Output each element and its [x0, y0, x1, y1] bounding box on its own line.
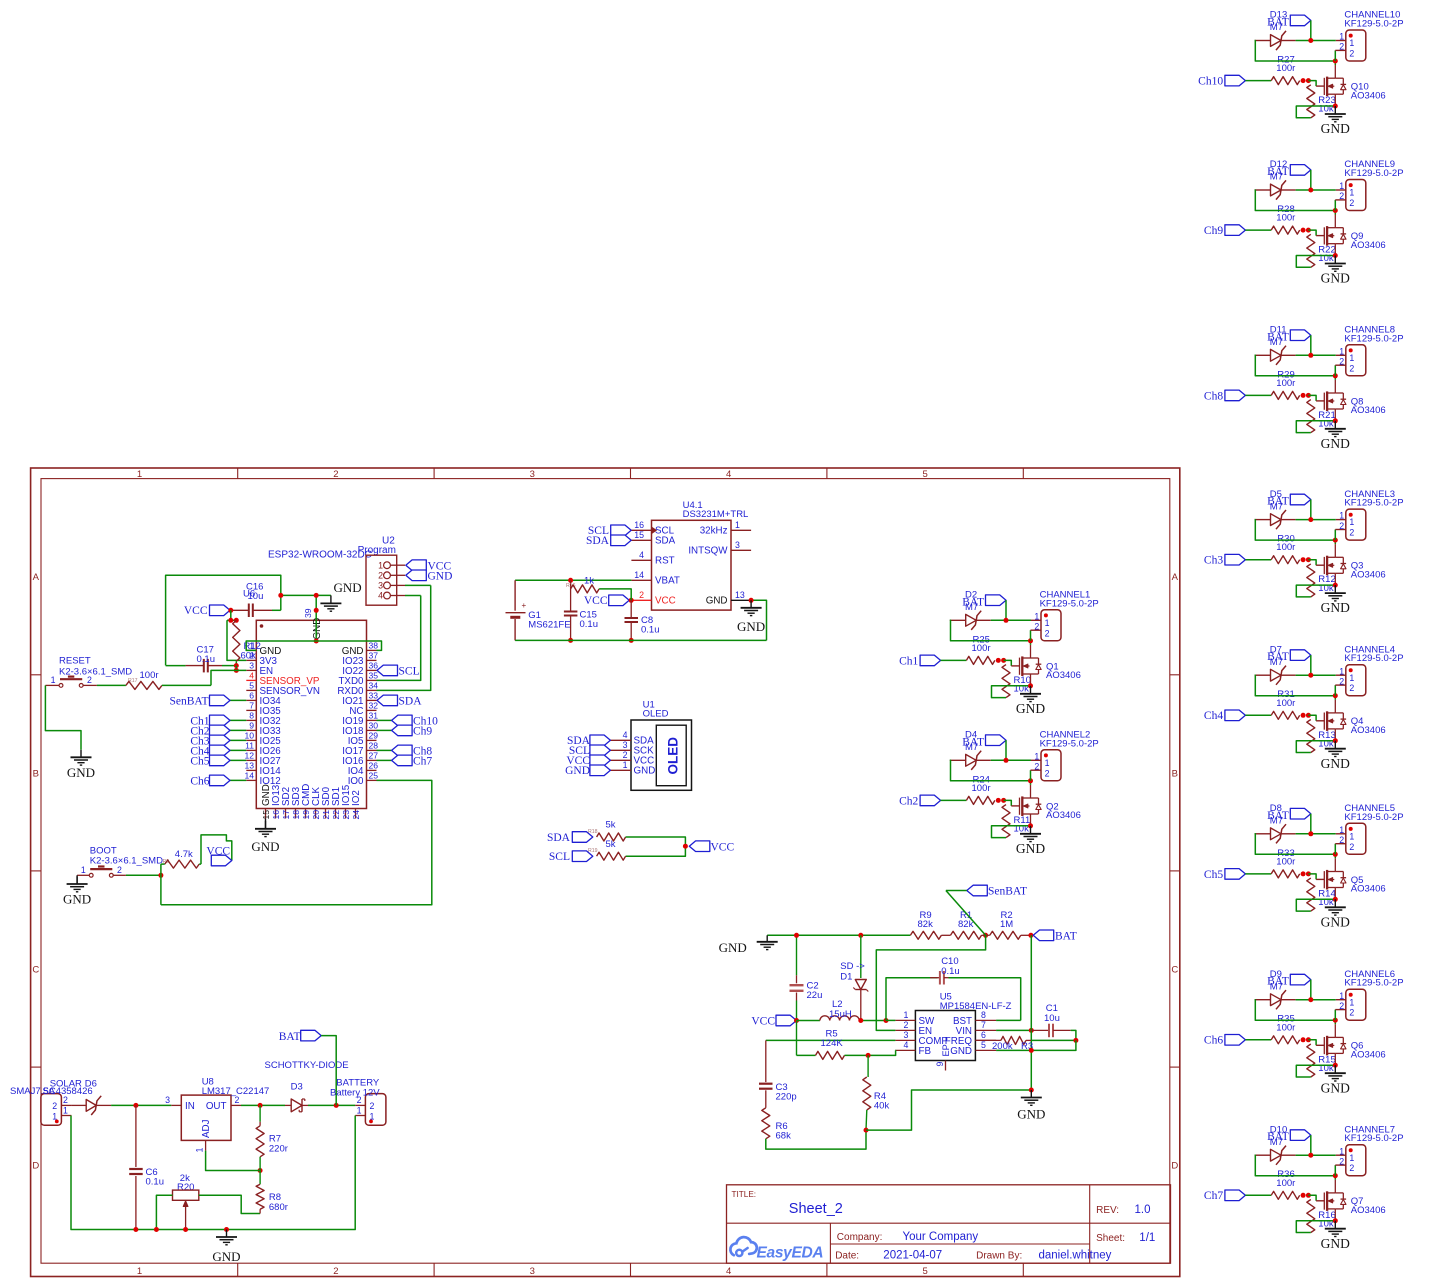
junction — [1308, 38, 1313, 43]
net flag Ch4 — [1225, 710, 1246, 721]
wire — [941, 799, 967, 801]
wire — [1296, 256, 1335, 268]
svg-text:2: 2 — [639, 590, 644, 600]
svg-text:2: 2 — [1339, 357, 1344, 367]
pin 9 IO33 — [246, 729, 256, 731]
svg-text:KF129-5.0-2P: KF129-5.0-2P — [1344, 333, 1403, 344]
wire — [859, 1020, 886, 1022]
pin 16 IO13 — [275, 809, 277, 819]
wire — [1030, 781, 1032, 785]
svg-text:1: 1 — [1349, 831, 1354, 841]
wire — [1245, 714, 1271, 716]
IC U4.1 DS3231M+TRL — [652, 520, 732, 610]
svg-text:Sheet_2: Sheet_2 — [789, 1201, 843, 1217]
svg-text:GND: GND — [212, 1249, 240, 1264]
svg-text:32: 32 — [369, 701, 379, 711]
svg-text:16: 16 — [634, 520, 644, 530]
svg-text:2: 2 — [1349, 49, 1354, 59]
svg-text:2: 2 — [1339, 42, 1344, 52]
svg-text:GND: GND — [1017, 1107, 1045, 1122]
svg-text:5: 5 — [922, 1266, 927, 1277]
junction — [1301, 78, 1306, 83]
junction — [1308, 353, 1313, 358]
wire — [1334, 696, 1336, 700]
svg-text:EasyEDA: EasyEDA — [757, 1245, 824, 1262]
svg-text:2: 2 — [333, 1266, 338, 1277]
junction — [228, 618, 233, 623]
wire — [235, 661, 237, 665]
svg-text:1: 1 — [1349, 353, 1354, 363]
svg-text:2: 2 — [357, 1095, 362, 1105]
wire 3V3 — [227, 620, 246, 660]
pin 17 SD2 — [285, 809, 287, 819]
net flag Ch2 — [920, 795, 941, 806]
resistor R3 200k — [975, 1039, 1001, 1041]
wire — [321, 1036, 336, 1106]
wire — [1255, 190, 1336, 211]
svg-text:1: 1 — [195, 1148, 205, 1153]
svg-text:23: 23 — [341, 810, 351, 820]
svg-text:GND: GND — [565, 765, 590, 777]
svg-text:VBAT: VBAT — [655, 576, 680, 587]
transistor Q10 AO3406 — [1323, 78, 1325, 95]
capacitor C10 0.1u — [886, 978, 938, 1021]
wire — [77, 874, 89, 876]
svg-text:220p: 220p — [776, 1092, 797, 1103]
resistor R15 10k — [1307, 1044, 1315, 1077]
svg-text:Drawn By:: Drawn By: — [976, 1251, 1022, 1262]
svg-text:38: 38 — [369, 641, 379, 651]
svg-text:GND: GND — [950, 1046, 972, 1057]
wire — [1334, 844, 1336, 855]
wire VBAT rail — [515, 579, 631, 581]
pin 3 COMP — [895, 1039, 915, 1041]
junction — [1333, 693, 1338, 698]
junction — [133, 1227, 138, 1232]
svg-text:Company:: Company: — [837, 1232, 883, 1243]
transistor Q5 AO3406 — [1323, 871, 1325, 888]
svg-text:1: 1 — [137, 469, 142, 480]
net flag VCC — [776, 1015, 797, 1026]
ground — [750, 600, 752, 608]
wire — [976, 619, 991, 621]
svg-text:9: 9 — [935, 1062, 945, 1067]
svg-text:2: 2 — [1339, 1001, 1344, 1011]
svg-text:KF129-5.0-2P: KF129-5.0-2P — [1344, 812, 1403, 823]
svg-text:GND: GND — [634, 766, 656, 777]
junction — [1308, 997, 1313, 1002]
svg-text:2: 2 — [378, 571, 383, 581]
svg-text:GND: GND — [1321, 600, 1350, 615]
net flag Ch8 — [1225, 390, 1246, 401]
svg-text:Program: Program — [358, 545, 396, 556]
svg-text:1M: 1M — [1000, 919, 1013, 930]
svg-text:4: 4 — [904, 1040, 909, 1050]
pin 2 3V3 — [246, 659, 256, 661]
svg-text:ESP32-WROOM-32DC: ESP32-WROOM-32DC — [268, 550, 372, 561]
net flag BAT — [301, 1030, 322, 1041]
svg-text:1: 1 — [1339, 825, 1344, 835]
svg-text:GND: GND — [67, 765, 95, 780]
svg-text:14: 14 — [244, 771, 254, 781]
connector CHANNEL4 KF129-5.0-2P — [1346, 665, 1366, 696]
connector CHANNEL6 KF129-5.0-2P — [1346, 989, 1366, 1020]
svg-text:100r: 100r — [1276, 213, 1295, 224]
svg-text:100r: 100r — [1276, 1178, 1295, 1189]
svg-text:TITLE:: TITLE: — [732, 1190, 757, 1199]
svg-text:KF129-5.0-2P: KF129-5.0-2P — [1040, 738, 1099, 749]
resistor R6 68k — [762, 1108, 770, 1139]
wire — [1296, 1065, 1335, 1077]
wire pin3 RXD0 — [405, 584, 431, 586]
junction — [1308, 831, 1313, 836]
wire — [1334, 50, 1336, 61]
pin 9 EP — [945, 1061, 947, 1071]
transistor Q4 AO3406 — [1323, 713, 1325, 730]
ground — [1333, 1063, 1338, 1068]
net flag Ch9 — [377, 729, 392, 731]
wire — [1310, 500, 1312, 520]
svg-text:1/1: 1/1 — [1139, 1232, 1155, 1244]
net flag Ch7 — [1225, 1190, 1246, 1201]
connector CHANNEL9 KF129-5.0-2P — [1346, 180, 1366, 211]
resistor R8 680r — [256, 1184, 264, 1209]
wire — [241, 1104, 285, 1106]
svg-text:1: 1 — [904, 1010, 909, 1020]
wire — [1245, 1194, 1271, 1196]
junction — [1004, 758, 1009, 763]
svg-text:2: 2 — [1339, 191, 1344, 201]
ground — [1030, 1090, 1032, 1098]
resistor R35 100r — [1271, 1036, 1300, 1044]
wire — [1255, 1000, 1336, 1021]
svg-text:KF129-5.0-2P: KF129-5.0-2P — [1344, 978, 1403, 989]
wire — [1310, 170, 1312, 190]
pin 11 IO26 — [246, 749, 256, 751]
svg-text:SDA: SDA — [547, 832, 571, 844]
junction — [1333, 1173, 1338, 1178]
net flag Ch7 — [377, 759, 392, 761]
svg-text:20: 20 — [311, 810, 321, 820]
svg-text:1k: 1k — [584, 576, 594, 587]
svg-text:SDA: SDA — [399, 695, 423, 707]
pin 10 IO25 — [246, 739, 256, 741]
pin 13 IO14 — [246, 769, 256, 771]
svg-text:5: 5 — [922, 469, 927, 480]
diode D1 SD — [858, 933, 863, 938]
junction — [1028, 638, 1033, 643]
svg-text:0.1u: 0.1u — [641, 625, 660, 636]
svg-text:2: 2 — [904, 1020, 909, 1030]
svg-text:1: 1 — [1349, 517, 1354, 527]
pin 35 TXD0 — [367, 679, 377, 681]
junction — [794, 1018, 799, 1023]
wire IO0 to BOOT — [161, 780, 432, 904]
resistor R31 100r — [1271, 711, 1300, 719]
resistor R14 10k — [1307, 878, 1315, 911]
junction — [1333, 1018, 1338, 1023]
svg-text:1: 1 — [51, 675, 56, 685]
svg-text:100r: 100r — [1276, 856, 1295, 867]
wire — [976, 759, 991, 761]
svg-text:VCC: VCC — [584, 595, 608, 607]
net flag Ch2 — [230, 729, 246, 731]
svg-text:22: 22 — [331, 810, 341, 820]
svg-text:Ch4: Ch4 — [1204, 710, 1223, 722]
net flag BAT — [986, 735, 1007, 746]
svg-text:34: 34 — [369, 681, 379, 691]
svg-text:1: 1 — [357, 1105, 362, 1115]
junction — [1333, 852, 1338, 857]
svg-text:22u: 22u — [807, 990, 823, 1001]
wire — [1308, 395, 1316, 401]
svg-text:680r: 680r — [269, 1202, 288, 1213]
transistor Q7 AO3406 — [1323, 1193, 1325, 1210]
net flag SCL — [590, 745, 611, 756]
junction — [1333, 59, 1338, 64]
connector CHANNEL2 KF129-5.0-2P — [1041, 750, 1061, 781]
wire — [1255, 834, 1336, 855]
wire — [113, 874, 126, 876]
wire — [160, 864, 162, 905]
diode D11 M7 — [1255, 354, 1271, 356]
wire — [1334, 540, 1336, 544]
svg-text:13: 13 — [735, 590, 745, 600]
svg-text:29: 29 — [369, 731, 379, 741]
net flag SenBAT — [230, 699, 246, 701]
junction — [228, 608, 233, 613]
svg-text:GND: GND — [1321, 914, 1350, 929]
junction — [1029, 1028, 1034, 1033]
junction — [629, 638, 634, 643]
svg-text:1: 1 — [1349, 673, 1354, 683]
wire — [1281, 674, 1296, 676]
resistor R2 1M — [990, 931, 1021, 939]
wire — [1245, 394, 1271, 396]
svg-text:OLED: OLED — [643, 709, 669, 720]
svg-text:GND: GND — [1321, 436, 1350, 451]
resistor R24 100r — [966, 796, 995, 804]
net flag Ch6 — [230, 779, 246, 781]
wire SenBAT diagonal — [946, 890, 967, 892]
svg-text:16: 16 — [271, 810, 281, 820]
pin 18 SD3 — [295, 809, 297, 819]
junction — [1029, 1048, 1034, 1053]
pin 25 IO0 — [367, 779, 377, 781]
net flag Ch3 — [1225, 554, 1246, 565]
svg-text:3: 3 — [249, 661, 254, 671]
wire — [1296, 1221, 1335, 1233]
junction — [568, 638, 573, 643]
wire — [1281, 354, 1296, 356]
ground — [80, 750, 82, 758]
net flag VCC — [609, 595, 630, 606]
resistor R36 100r — [1271, 1191, 1300, 1199]
diode D9 M7 — [1255, 999, 1271, 1001]
svg-text:ADJ: ADJ — [201, 1119, 212, 1138]
net flag SDA — [590, 735, 611, 746]
wire — [1281, 519, 1296, 521]
net flag GND — [590, 765, 611, 776]
svg-text:0.1u: 0.1u — [146, 1177, 165, 1188]
svg-text:VCC: VCC — [751, 1016, 775, 1028]
svg-text:FB: FB — [919, 1046, 932, 1057]
ground — [1333, 897, 1338, 902]
wire COMP — [766, 1039, 896, 1041]
ground — [1333, 104, 1338, 109]
svg-text:KF129-5.0-2P: KF129-5.0-2P — [1344, 498, 1403, 509]
svg-text:60k: 60k — [241, 651, 257, 662]
svg-text:18: 18 — [291, 810, 301, 820]
wire VCC rail — [166, 575, 281, 665]
svg-text:BAT: BAT — [1267, 496, 1289, 508]
svg-text:1: 1 — [1339, 32, 1344, 42]
wire — [1308, 81, 1316, 87]
junction — [1301, 713, 1306, 718]
net flag Ch9 — [1225, 225, 1246, 236]
svg-text:BAT: BAT — [1267, 166, 1289, 178]
net flag VCC — [211, 855, 232, 866]
svg-text:AO3406: AO3406 — [1046, 810, 1081, 821]
pin 22 SD1 — [335, 809, 337, 819]
connector CHANNEL1 KF129-5.0-2P — [1041, 610, 1061, 641]
svg-text:B: B — [33, 768, 39, 779]
svg-text:3: 3 — [165, 1095, 170, 1105]
svg-text:6: 6 — [981, 1030, 986, 1040]
wire — [1296, 585, 1335, 597]
wire — [1255, 41, 1336, 62]
diode D5 M7 — [1255, 519, 1271, 521]
svg-text:2: 2 — [52, 1101, 57, 1111]
svg-text:11: 11 — [245, 741, 254, 751]
wire — [1308, 1195, 1316, 1201]
svg-text:1: 1 — [378, 560, 383, 570]
wire — [1334, 854, 1336, 858]
net flag VCC — [689, 841, 710, 852]
svg-text:SDA: SDA — [655, 536, 676, 547]
svg-text:GND: GND — [251, 839, 279, 854]
svg-text:15uH: 15uH — [829, 1009, 852, 1020]
svg-text:4.7k: 4.7k — [175, 849, 193, 860]
svg-text:2: 2 — [1349, 198, 1354, 208]
svg-text:1: 1 — [1045, 758, 1050, 768]
svg-text:KF129-5.0-2P: KF129-5.0-2P — [1040, 598, 1099, 609]
junction — [1028, 933, 1033, 938]
capacitor C1 10u — [1031, 1029, 1049, 1031]
wire — [1310, 655, 1312, 675]
pin 6 FREQ — [975, 1039, 996, 1041]
wire — [941, 659, 967, 661]
pin 32 NC — [367, 709, 377, 711]
svg-text:Ch7: Ch7 — [413, 756, 432, 768]
net flag BAT — [986, 595, 1007, 606]
svg-text:REV:: REV: — [1096, 1205, 1119, 1216]
capacitor C6 0.1u — [135, 1105, 137, 1167]
wire — [626, 837, 686, 856]
svg-text:1: 1 — [137, 1266, 142, 1277]
svg-text:MP1584EN-LF-Z: MP1584EN-LF-Z — [940, 1001, 1012, 1012]
resistor R1 82k — [951, 931, 982, 939]
svg-text:AO3406: AO3406 — [1351, 405, 1386, 416]
wire EN — [211, 670, 246, 685]
svg-text:BAT: BAT — [1055, 931, 1077, 943]
svg-text:3: 3 — [378, 581, 383, 591]
svg-text:100r: 100r — [1276, 1022, 1295, 1033]
svg-text:OUT: OUT — [206, 1101, 227, 1112]
wire — [1308, 560, 1316, 566]
svg-text:OLED: OLED — [666, 737, 681, 775]
svg-text:5: 5 — [981, 1040, 986, 1050]
net flag VCC — [590, 755, 611, 766]
svg-text:Ch5: Ch5 — [190, 755, 209, 767]
svg-text:SenBAT: SenBAT — [170, 695, 209, 707]
pin 4 FB — [895, 1049, 915, 1051]
svg-text:100r: 100r — [1276, 542, 1295, 553]
svg-text:35: 35 — [369, 671, 379, 681]
svg-text:2: 2 — [1349, 683, 1354, 693]
wire — [1296, 899, 1335, 911]
net flag VCC — [406, 560, 427, 571]
wire — [866, 1090, 1031, 1130]
capacitor C15 0.1u — [570, 589, 572, 611]
ground — [76, 875, 78, 884]
pin 3 SCK — [610, 749, 631, 751]
junction — [996, 658, 1001, 663]
svg-text:82k: 82k — [918, 919, 934, 930]
svg-text:KF129-5.0-2P: KF129-5.0-2P — [1344, 1133, 1403, 1144]
net flag BAT — [1290, 1130, 1311, 1141]
svg-text:2: 2 — [1339, 521, 1344, 531]
resistor R28 100r — [1271, 226, 1300, 234]
svg-text:0.1u: 0.1u — [580, 619, 599, 630]
svg-text:AO3406: AO3406 — [1351, 240, 1386, 251]
resistor R23 10k — [1307, 85, 1315, 118]
junction — [864, 1128, 869, 1133]
svg-text:8: 8 — [981, 1010, 986, 1020]
wire — [111, 1104, 171, 1106]
svg-text:INTSQW: INTSQW — [688, 546, 728, 557]
net flag BAT — [1290, 330, 1311, 341]
wire — [1245, 229, 1271, 231]
net flag BAT — [1033, 930, 1054, 941]
diode D8 M7 — [1255, 833, 1271, 835]
svg-text:BAT: BAT — [1267, 976, 1289, 988]
wire — [231, 610, 237, 620]
svg-text:GND: GND — [1321, 1080, 1350, 1095]
svg-text:Ch10: Ch10 — [1198, 76, 1223, 88]
pin 1 GND — [246, 649, 256, 651]
wire — [1334, 365, 1336, 376]
pin 30 IO18 — [367, 729, 377, 731]
wire — [1334, 1165, 1336, 1176]
svg-text:GND: GND — [1016, 841, 1045, 856]
wire — [1296, 421, 1335, 433]
junction — [1004, 618, 1009, 623]
wire — [1296, 106, 1335, 118]
capacitor C8 0.1u — [630, 600, 632, 617]
junction — [1301, 393, 1306, 398]
wire — [992, 826, 1031, 838]
svg-text:100r: 100r — [1276, 698, 1295, 709]
wire — [1281, 40, 1296, 42]
svg-text:KF129-5.0-2P: KF129-5.0-2P — [1344, 19, 1403, 30]
junction — [866, 1053, 871, 1058]
svg-text:1: 1 — [63, 1105, 68, 1115]
wire GND row — [996, 1040, 1076, 1050]
svg-text:EP: EP — [941, 1044, 951, 1056]
svg-text:Sheet:: Sheet: — [1096, 1233, 1125, 1244]
ground — [1333, 738, 1338, 743]
